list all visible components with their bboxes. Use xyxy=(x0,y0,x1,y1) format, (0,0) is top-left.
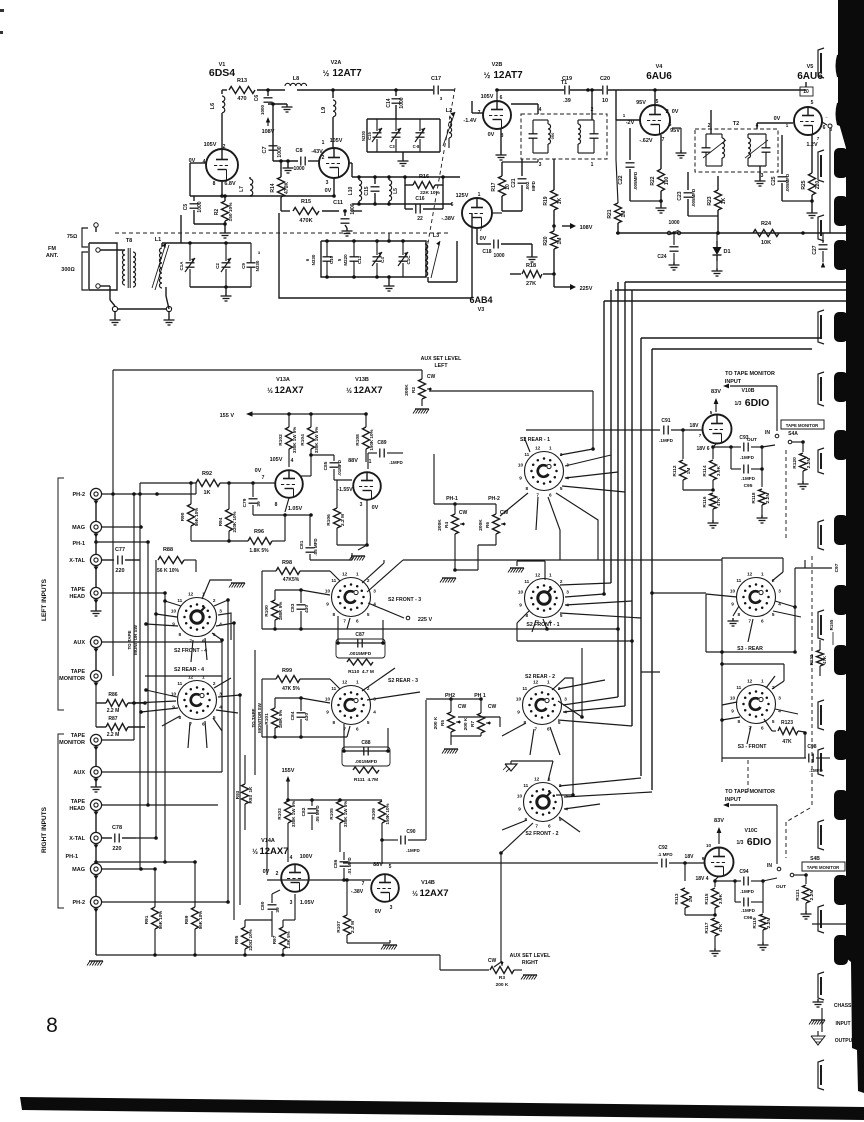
svg-text:4: 4 xyxy=(373,709,376,714)
svg-text:7: 7 xyxy=(262,475,265,481)
svg-text:R108: R108 xyxy=(355,434,361,446)
svg-text:1000: 1000 xyxy=(350,203,356,214)
resistor R16 xyxy=(403,174,445,196)
svg-text:2.2 M: 2.2 M xyxy=(350,921,356,933)
svg-text:12AT7: 12AT7 xyxy=(493,70,523,81)
svg-text:9: 9 xyxy=(731,708,734,713)
svg-text:R4: R4 xyxy=(444,522,450,528)
wire mesh v6 xyxy=(164,593,166,862)
ground g10 xyxy=(496,152,507,160)
ground g5 xyxy=(398,158,409,166)
svg-text:1: 1 xyxy=(356,680,359,685)
svg-text:6: 6 xyxy=(500,95,503,101)
svg-text:S4A: S4A xyxy=(788,431,798,437)
svg-text:-2V: -2V xyxy=(626,120,635,126)
resistor R108 xyxy=(355,412,374,462)
svg-text:V13B: V13B xyxy=(355,377,369,383)
svg-text:C15: C15 xyxy=(364,186,370,195)
tube V5 label xyxy=(797,64,823,82)
svg-text:PH-1: PH-1 xyxy=(446,496,458,502)
svg-text:5: 5 xyxy=(560,486,563,491)
svg-text:PH-2: PH-2 xyxy=(72,492,85,498)
label to tape mon sw2 xyxy=(251,702,262,732)
svg-text:1.05V: 1.05V xyxy=(300,900,315,906)
connector finger 12 xyxy=(818,972,824,1000)
wire k bus xyxy=(281,209,362,213)
svg-text:95V: 95V xyxy=(636,100,646,106)
box tank lower xyxy=(321,241,426,277)
svg-text:2.2 M: 2.2 M xyxy=(107,732,120,738)
wire s2f1 pin4 xyxy=(565,601,632,605)
svg-text:R90: R90 xyxy=(180,512,186,521)
resistor R113 xyxy=(674,863,715,915)
capacitor C92 xyxy=(657,845,705,868)
svg-text:9: 9 xyxy=(518,806,521,811)
wire s2r4 pin8 xyxy=(162,716,180,726)
capacitor C89 xyxy=(368,440,404,469)
svg-text:1K: 1K xyxy=(203,490,210,496)
dashed gang horizontal xyxy=(115,232,450,234)
svg-text:300Ω: 300Ω xyxy=(61,267,74,273)
svg-text:47K: 47K xyxy=(718,923,724,932)
ground g21 xyxy=(91,778,102,792)
label 225V arrow mid xyxy=(368,603,433,623)
svg-text:7: 7 xyxy=(534,727,537,732)
svg-text:10: 10 xyxy=(517,794,523,799)
label C97 xyxy=(834,563,840,572)
label tape monitor box C xyxy=(802,862,845,871)
label 108V arrow2 xyxy=(0,0,1,1)
svg-text:6: 6 xyxy=(549,493,552,498)
svg-text:12: 12 xyxy=(188,675,194,680)
svg-text:C1A: C1A xyxy=(179,261,184,271)
resistor R14 xyxy=(270,159,290,211)
rotary S3-FRONT xyxy=(730,679,781,751)
svg-text:S2 REAR - 2: S2 REAR - 2 xyxy=(525,674,555,680)
svg-text:TAPE MONITOR: TAPE MONITOR xyxy=(786,423,819,428)
svg-text:105V: 105V xyxy=(204,142,217,148)
wire s2f1 pin3 xyxy=(565,592,606,597)
box s2f3 xyxy=(262,571,350,631)
jack MAG L xyxy=(72,521,101,537)
resistor R106 xyxy=(326,480,367,545)
svg-text:TAPE: TAPE xyxy=(71,733,86,739)
svg-text:.01 MFD: .01 MFD xyxy=(347,857,352,875)
capacitor C80 xyxy=(260,890,281,937)
svg-text:2: 2 xyxy=(560,579,563,584)
wire s2r4 pin11 xyxy=(144,688,177,697)
resistor R22 xyxy=(630,135,670,205)
wire jack xtal l xyxy=(184,560,196,572)
resistor R86 xyxy=(96,682,145,714)
resistor R92 xyxy=(140,471,275,496)
wire r6 wiper link xyxy=(0,0,1,1)
svg-text:C83: C83 xyxy=(290,603,296,612)
svg-text:C2: C2 xyxy=(215,263,220,269)
svg-text:200K: 200K xyxy=(437,519,443,531)
svg-text:R5: R5 xyxy=(440,720,446,726)
svg-text:3: 3 xyxy=(778,589,781,594)
rotary S2 REAR-4 xyxy=(171,667,222,727)
svg-text:5: 5 xyxy=(656,99,659,105)
wire box to line xyxy=(396,116,403,158)
svg-text:½: ½ xyxy=(412,890,418,898)
ground g15 xyxy=(807,210,818,218)
capacitor C78 xyxy=(102,825,136,852)
wire bus x641 xyxy=(641,338,820,776)
capacitor C94 xyxy=(715,869,765,894)
wire bus vertical x625 xyxy=(624,282,626,706)
svg-text:5: 5 xyxy=(367,720,370,725)
wire jack ph1 r xyxy=(96,860,195,864)
svg-text:R100: R100 xyxy=(264,605,270,617)
svg-text:1000: 1000 xyxy=(260,104,265,115)
svg-text:10: 10 xyxy=(516,697,522,702)
svg-text:9: 9 xyxy=(326,601,329,606)
svg-text:6: 6 xyxy=(451,202,454,208)
wire out right xyxy=(812,923,864,925)
ground hatch g28 xyxy=(521,975,537,980)
svg-text:CW: CW xyxy=(500,510,509,516)
wire jack mag r xyxy=(102,867,155,871)
svg-text:3: 3 xyxy=(564,697,567,702)
svg-text:47K: 47K xyxy=(822,655,827,664)
svg-text:R20: R20 xyxy=(543,236,549,245)
label V10C xyxy=(737,828,772,848)
wire s2r4 pin4 xyxy=(216,710,238,713)
jack AUX L xyxy=(73,636,101,652)
svg-text:S2 REAR - 4: S2 REAR - 4 xyxy=(174,667,204,673)
svg-text:C85: C85 xyxy=(323,461,329,470)
svg-text:22: 22 xyxy=(417,216,423,222)
ground g9 xyxy=(384,277,395,291)
label 75ohm xyxy=(67,228,88,247)
jack MAG R xyxy=(72,863,101,879)
svg-text:8: 8 xyxy=(525,486,528,491)
svg-text:47K 5%: 47K 5% xyxy=(282,686,300,692)
svg-text:1: 1 xyxy=(369,459,372,465)
box T1 xyxy=(521,80,607,159)
svg-text:1: 1 xyxy=(478,192,481,198)
svg-text:0V: 0V xyxy=(372,505,379,511)
svg-text:C80: C80 xyxy=(260,901,266,910)
svg-text:C6: C6 xyxy=(254,95,260,102)
svg-text:4: 4 xyxy=(539,107,542,113)
svg-text:10: 10 xyxy=(171,609,177,614)
label v10c k xyxy=(695,876,708,882)
wire s3r pin4 xyxy=(775,601,797,652)
svg-text:R98: R98 xyxy=(282,560,292,566)
wire s3r pin7 xyxy=(748,619,753,642)
svg-text:L6: L6 xyxy=(210,103,216,109)
svg-text:X-TAL: X-TAL xyxy=(69,558,85,564)
svg-text:1M: 1M xyxy=(557,238,563,245)
inductor L1 xyxy=(152,215,181,290)
label aux set level left xyxy=(421,356,462,369)
svg-text:R96: R96 xyxy=(254,529,264,535)
connector finger 11 xyxy=(818,905,824,933)
svg-text:1: 1 xyxy=(322,140,325,146)
wire s2r4 pin10 xyxy=(132,701,176,705)
svg-text:11: 11 xyxy=(736,578,741,583)
capacitor C27 xyxy=(812,233,828,268)
ground g11 xyxy=(527,254,538,262)
ground g25 xyxy=(413,409,429,414)
svg-text:6: 6 xyxy=(356,619,359,624)
svg-text:47K: 47K xyxy=(782,739,792,745)
svg-text:11: 11 xyxy=(331,686,336,691)
wire s3f pin8 xyxy=(720,717,740,722)
wire s3r pin10 xyxy=(706,594,737,652)
svg-text:-43V: -43V xyxy=(311,149,323,155)
svg-text:1: 1 xyxy=(761,679,764,684)
resistor R118 xyxy=(751,467,771,515)
label 108V arrow xyxy=(552,223,593,231)
svg-text:C7: C7 xyxy=(262,146,268,153)
wire s2r1 stubs xyxy=(500,449,625,560)
ground g27 xyxy=(381,945,397,950)
ground g1 xyxy=(282,104,293,112)
svg-text:R110 4.7 M: R110 4.7 M xyxy=(348,669,374,675)
resistor R114 xyxy=(702,443,722,492)
capacitor C6 xyxy=(254,88,287,115)
svg-text:OUT: OUT xyxy=(747,437,757,443)
svg-text:R2: R2 xyxy=(214,209,220,216)
svg-text:56 K 10%: 56 K 10% xyxy=(157,568,180,574)
svg-text:47K5%: 47K5% xyxy=(283,577,300,583)
svg-text:1: 1 xyxy=(591,162,594,168)
svg-text:6: 6 xyxy=(823,125,826,131)
svg-text:R95: R95 xyxy=(234,935,240,944)
svg-text:L8: L8 xyxy=(293,76,299,82)
svg-text:7: 7 xyxy=(536,493,539,498)
wire top rail mid xyxy=(111,370,422,496)
svg-text:10: 10 xyxy=(518,463,524,468)
tube V2B xyxy=(483,90,511,129)
svg-text:R155: R155 xyxy=(829,619,834,630)
svg-text:3: 3 xyxy=(360,502,363,508)
antenna terminal c xyxy=(96,284,100,288)
svg-text:.1MFD: .1MFD xyxy=(741,476,755,481)
svg-text:12: 12 xyxy=(747,679,753,684)
trimmer C15 xyxy=(361,119,382,152)
label 83V C xyxy=(714,818,724,844)
svg-text:R118: R118 xyxy=(751,492,757,504)
svg-text:R105: R105 xyxy=(329,808,335,820)
pot R3 xyxy=(488,958,522,988)
label to tape monitor input B xyxy=(723,371,777,431)
connector finger 3 xyxy=(818,310,824,344)
svg-text:RIGHT INPUTS: RIGHT INPUTS xyxy=(41,806,48,853)
resistor R24 xyxy=(753,221,779,246)
svg-text:155V: 155V xyxy=(282,768,295,774)
switch S4B xyxy=(763,856,820,890)
svg-text:R117: R117 xyxy=(704,922,710,934)
box trimmers upper xyxy=(367,119,440,152)
svg-text:11: 11 xyxy=(177,598,182,603)
svg-text:11: 11 xyxy=(522,686,527,691)
wire mesh v4 xyxy=(147,542,149,805)
wire v4 plate top xyxy=(653,88,657,105)
svg-text:4: 4 xyxy=(291,458,294,464)
ground g39 xyxy=(758,942,769,950)
svg-text:10: 10 xyxy=(518,590,524,595)
svg-text:R111 4.7M: R111 4.7M xyxy=(354,777,378,783)
wire r123 down xyxy=(804,733,806,758)
tube V14A xyxy=(281,864,309,892)
antenna terminal a xyxy=(94,223,98,232)
svg-text:3: 3 xyxy=(219,609,222,614)
wire s2f3 pin2 diag xyxy=(362,560,384,583)
svg-text:6AB4: 6AB4 xyxy=(469,295,492,305)
varcap C2 xyxy=(215,243,231,287)
resistor R89 xyxy=(184,860,203,957)
connector finger 0 xyxy=(818,48,824,78)
ground g20 xyxy=(91,599,102,616)
svg-text:18V 4: 18V 4 xyxy=(695,876,708,882)
svg-text:R3: R3 xyxy=(499,975,505,981)
wire s3f pin6 r123 xyxy=(764,719,772,731)
svg-text:430: 430 xyxy=(304,605,310,613)
box s2r3 xyxy=(262,679,350,739)
wire pots feed xyxy=(434,454,496,570)
svg-text:AUX: AUX xyxy=(73,640,85,646)
wire s2f4 pins67 xyxy=(191,638,207,662)
svg-text:CW: CW xyxy=(488,704,497,710)
wire jack tapemon l xyxy=(145,675,222,677)
svg-text:10: 10 xyxy=(602,98,608,104)
svg-text:8: 8 xyxy=(275,502,278,508)
svg-text:L9: L9 xyxy=(321,107,327,113)
svg-text:C3: C3 xyxy=(389,144,395,149)
svg-text:39: 39 xyxy=(275,907,281,913)
label N330 C10 xyxy=(305,241,334,277)
svg-text:1K: 1K xyxy=(721,197,727,204)
svg-text:T2: T2 xyxy=(733,121,739,127)
svg-text:IN: IN xyxy=(767,863,772,869)
wire l3 drop xyxy=(428,241,457,282)
ground g38 xyxy=(710,948,721,956)
svg-text:9: 9 xyxy=(517,709,520,714)
svg-text:S4B: S4B xyxy=(810,856,820,862)
wire bplus bus xyxy=(616,231,864,235)
wire jack tapemon r xyxy=(102,739,134,741)
wire s2f3 pin3 diag xyxy=(367,560,403,592)
ground g36 xyxy=(442,749,458,754)
capacitor C91 xyxy=(659,418,703,443)
svg-text:C16: C16 xyxy=(415,196,424,202)
svg-text:C14: C14 xyxy=(386,98,392,107)
svg-text:C90: C90 xyxy=(406,829,415,835)
ground g4 xyxy=(342,228,353,236)
wire s3f pin4 xyxy=(775,709,798,714)
svg-text:11: 11 xyxy=(524,452,529,457)
svg-text:.1MFD: .1MFD xyxy=(659,438,673,443)
svg-text:MONITOR: MONITOR xyxy=(59,740,85,746)
wire v13b cathode xyxy=(358,500,369,550)
svg-text:R19: R19 xyxy=(543,196,549,205)
svg-text:C22: C22 xyxy=(618,175,624,184)
trimmer C3 xyxy=(389,119,401,152)
svg-text:N330: N330 xyxy=(311,254,316,265)
svg-text:-1.4V: -1.4V xyxy=(463,118,476,124)
wire bus y282 xyxy=(625,281,864,283)
tube V1 label xyxy=(209,62,235,79)
rotary S2 FRONT-1 xyxy=(518,573,569,629)
svg-text:5: 5 xyxy=(558,720,561,725)
connector finger 1 xyxy=(818,150,824,182)
svg-text:C91: C91 xyxy=(661,418,670,424)
svg-text:V2B: V2B xyxy=(492,62,503,68)
wire jack ph2 r xyxy=(102,900,230,904)
connector finger 10 xyxy=(818,820,824,850)
svg-text:.05 MFD: .05 MFD xyxy=(313,538,318,556)
svg-text:R93 1K: R93 1K xyxy=(248,786,253,804)
label 300ohm xyxy=(61,252,88,290)
svg-text:100V: 100V xyxy=(300,854,313,860)
svg-text:-1.55V: -1.55V xyxy=(337,487,353,493)
svg-text:R6: R6 xyxy=(485,522,491,528)
svg-text:R115: R115 xyxy=(704,893,710,905)
ground g6 xyxy=(221,287,232,301)
wire s2r4 pin3 xyxy=(218,693,242,697)
svg-text:8: 8 xyxy=(524,817,527,822)
svg-text:R18: R18 xyxy=(526,263,536,269)
svg-text:½: ½ xyxy=(252,848,258,856)
svg-text:2.2M: 2.2M xyxy=(806,458,812,469)
svg-text:330K 1W 5%: 330K 1W 5% xyxy=(291,801,296,828)
svg-text:C96: C96 xyxy=(744,915,753,921)
svg-text:1000: 1000 xyxy=(293,166,304,172)
capacitor C88 xyxy=(342,724,390,783)
svg-text:8: 8 xyxy=(178,632,181,637)
label v13a pins xyxy=(255,457,303,512)
resistor R102 xyxy=(278,412,297,467)
svg-text:R101: R101 xyxy=(264,713,270,725)
bracket left inputs xyxy=(41,478,64,710)
svg-text:12AX7: 12AX7 xyxy=(353,385,382,396)
svg-text:.002: .002 xyxy=(525,181,530,190)
svg-text:R113: R113 xyxy=(674,893,680,905)
capacitor C98 xyxy=(722,744,830,773)
svg-text:200 K: 200 K xyxy=(496,982,509,988)
svg-text:105V: 105V xyxy=(330,138,343,144)
svg-text:0V: 0V xyxy=(488,132,495,138)
svg-text:.0015MFD: .0015MFD xyxy=(355,759,378,765)
svg-text:N330: N330 xyxy=(255,260,260,271)
svg-text:TAPE: TAPE xyxy=(71,587,86,593)
label v5 pins xyxy=(800,87,833,148)
svg-text:LEFT: LEFT xyxy=(435,363,449,369)
wire bottom bus xyxy=(96,953,489,970)
svg-text:1000: 1000 xyxy=(197,201,203,212)
tube V4 xyxy=(640,105,670,135)
label 155V b xyxy=(282,768,295,786)
wire pot wipers 2 xyxy=(458,717,500,727)
svg-text:V2A: V2A xyxy=(331,60,342,66)
svg-text:1.8K 5%: 1.8K 5% xyxy=(249,548,269,554)
svg-text:R121: R121 xyxy=(795,889,801,901)
svg-text:CW: CW xyxy=(459,510,468,516)
svg-text:TAPE: TAPE xyxy=(71,669,86,675)
svg-text:V4: V4 xyxy=(656,64,664,70)
inductor L8 xyxy=(285,76,307,86)
wire s2f4 pin5 xyxy=(212,633,224,642)
label V13B xyxy=(346,377,382,396)
svg-text:5: 5 xyxy=(560,613,563,618)
resistor R104 xyxy=(300,412,319,455)
tube V3 xyxy=(462,198,492,228)
